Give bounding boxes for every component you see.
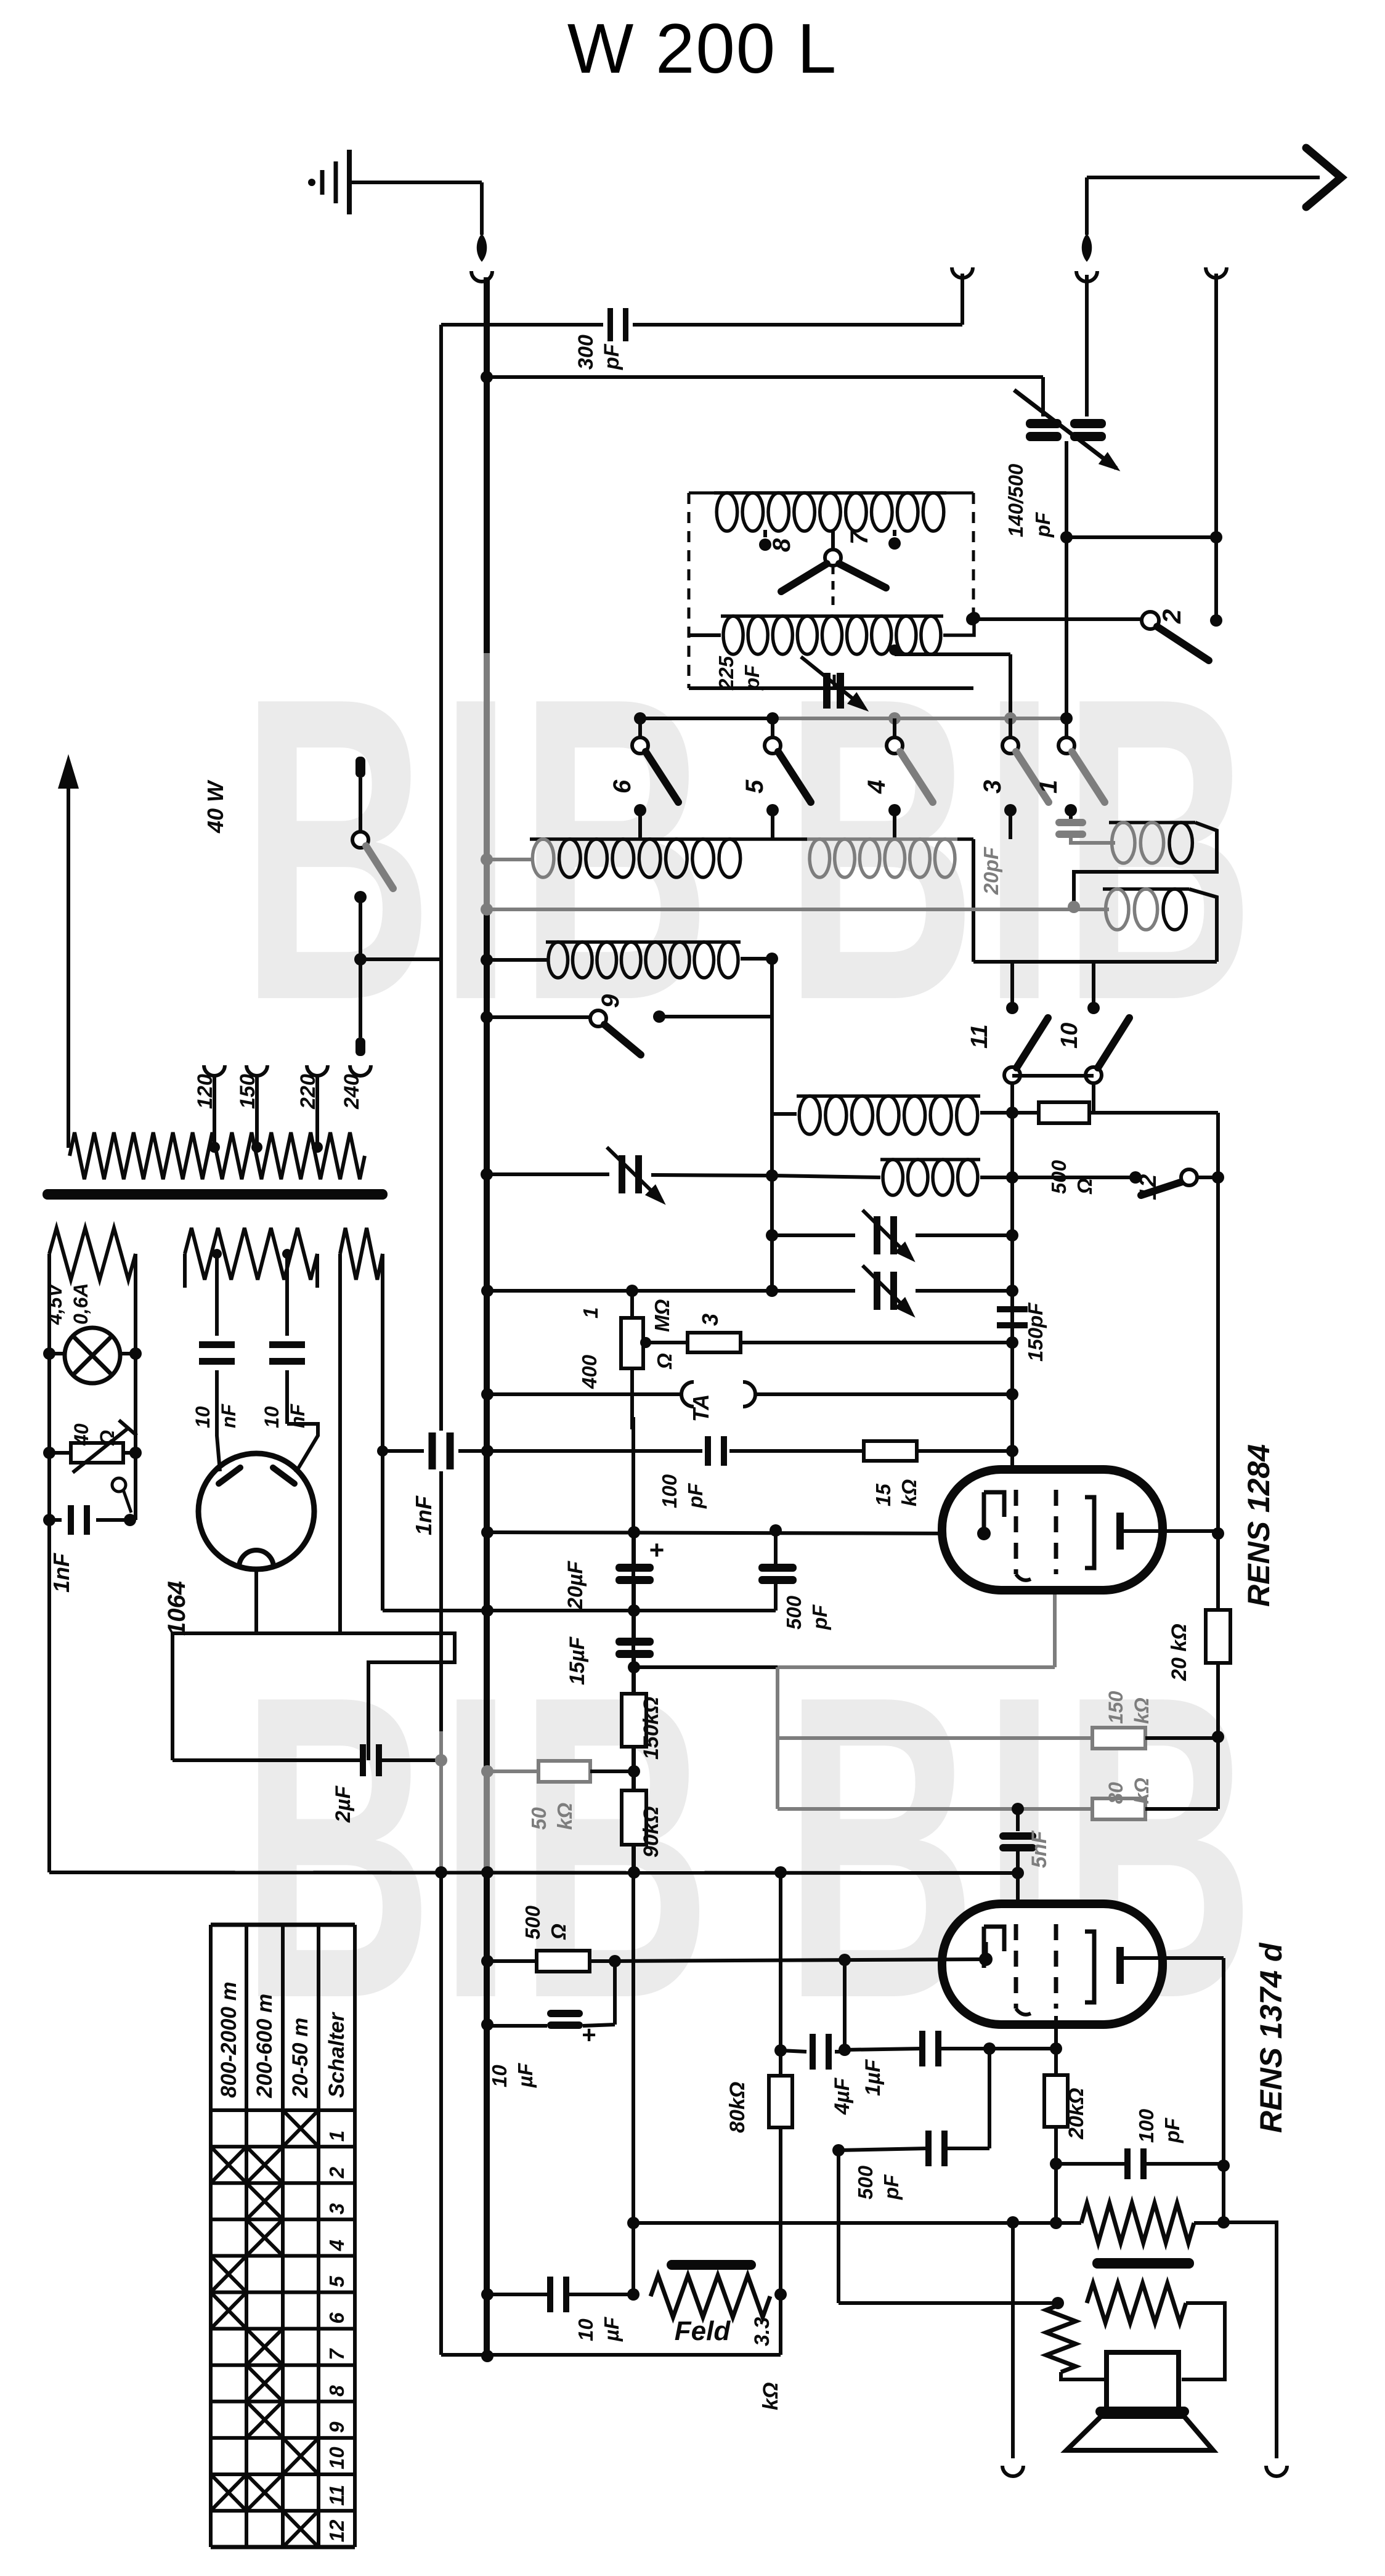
svg-text:8: 8 bbox=[325, 2385, 348, 2397]
svg-text:Schalter: Schalter bbox=[325, 2012, 349, 2098]
svg-text:2µF: 2µF bbox=[331, 1786, 355, 1823]
svg-text:6: 6 bbox=[325, 2312, 348, 2324]
svg-text:2: 2 bbox=[1157, 609, 1186, 624]
svg-text:TA: TA bbox=[688, 1394, 713, 1422]
svg-text:Ω: Ω bbox=[653, 1353, 676, 1370]
svg-text:9: 9 bbox=[597, 994, 624, 1008]
svg-text:9: 9 bbox=[325, 2421, 348, 2433]
svg-text:20-50 m: 20-50 m bbox=[288, 2018, 312, 2099]
svg-text:6: 6 bbox=[609, 779, 636, 794]
svg-text:7: 7 bbox=[846, 530, 873, 545]
svg-text:120: 120 bbox=[193, 1074, 217, 1109]
svg-text:5nF: 5nF bbox=[1028, 1830, 1051, 1868]
svg-text:BIB: BIB bbox=[240, 609, 717, 1090]
svg-text:4µF: 4µF bbox=[831, 2078, 854, 2115]
svg-text:20 kΩ: 20 kΩ bbox=[1168, 1623, 1191, 1681]
svg-text:1µF: 1µF bbox=[861, 2059, 885, 2096]
svg-text:W 200 L: W 200 L bbox=[567, 10, 838, 88]
svg-text:3: 3 bbox=[325, 2203, 348, 2214]
svg-text:RENS 1284: RENS 1284 bbox=[1241, 1444, 1276, 1607]
svg-text:2: 2 bbox=[325, 2166, 348, 2179]
svg-text:kΩ: kΩ bbox=[759, 2383, 782, 2410]
svg-text:10: 10 bbox=[1057, 1023, 1082, 1049]
svg-text:20pF: 20pF bbox=[980, 847, 1002, 895]
svg-text:MΩ: MΩ bbox=[651, 1299, 673, 1332]
svg-text:10: 10 bbox=[325, 2447, 348, 2469]
svg-text:20kΩ: 20kΩ bbox=[1065, 2088, 1088, 2140]
svg-text:RENS 1374 d: RENS 1374 d bbox=[1254, 1942, 1288, 2133]
svg-text:40 W: 40 W bbox=[203, 779, 228, 834]
svg-text:11: 11 bbox=[325, 2485, 348, 2506]
svg-text:80kΩ: 80kΩ bbox=[726, 2082, 749, 2133]
svg-text:Feld: Feld bbox=[675, 2316, 731, 2346]
svg-text:1nF: 1nF bbox=[49, 1553, 74, 1593]
svg-text:20µF: 20µF bbox=[564, 1561, 587, 1610]
svg-text:150: 150 bbox=[236, 1074, 259, 1109]
svg-text:4: 4 bbox=[863, 780, 890, 794]
svg-text:5: 5 bbox=[325, 2276, 348, 2288]
svg-text:+: + bbox=[649, 1535, 665, 1564]
svg-text:240: 240 bbox=[340, 1074, 364, 1110]
svg-text:200-600 m: 200-600 m bbox=[253, 1994, 277, 2099]
svg-text:1064: 1064 bbox=[163, 1581, 190, 1636]
svg-text:8: 8 bbox=[768, 538, 795, 552]
svg-text:3: 3 bbox=[697, 1314, 723, 1326]
svg-text:+: + bbox=[582, 2021, 596, 2049]
svg-text:90kΩ: 90kΩ bbox=[640, 1806, 663, 1858]
svg-text:3.3: 3.3 bbox=[750, 2317, 774, 2346]
svg-text:3: 3 bbox=[979, 780, 1006, 794]
svg-text:1: 1 bbox=[325, 2131, 348, 2142]
svg-text:150kΩ: 150kΩ bbox=[640, 1697, 663, 1760]
svg-text:12: 12 bbox=[1135, 1174, 1161, 1200]
svg-text:5: 5 bbox=[741, 779, 768, 794]
svg-text:15µF: 15µF bbox=[566, 1636, 589, 1685]
svg-text:7: 7 bbox=[325, 2348, 348, 2360]
svg-text:1: 1 bbox=[579, 1307, 602, 1318]
svg-text:150pF: 150pF bbox=[1024, 1302, 1047, 1362]
svg-text:4: 4 bbox=[325, 2240, 348, 2251]
svg-text:12: 12 bbox=[325, 2519, 348, 2542]
svg-text:400: 400 bbox=[578, 1354, 601, 1389]
svg-text:220: 220 bbox=[296, 1074, 320, 1110]
svg-text:11: 11 bbox=[967, 1025, 993, 1049]
svg-text:1: 1 bbox=[1035, 780, 1062, 794]
svg-text:1nF: 1nF bbox=[411, 1495, 436, 1535]
svg-text:800-2000 m: 800-2000 m bbox=[217, 1981, 241, 2098]
